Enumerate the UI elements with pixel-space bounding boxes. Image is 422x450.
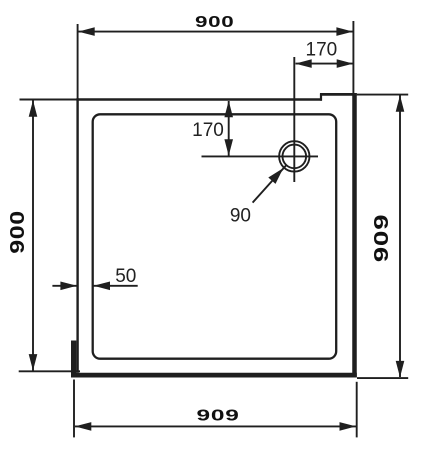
svg-text:909: 909 <box>197 406 240 424</box>
arrow 50 right (points left) <box>94 282 111 291</box>
extension line bottom-left (vertical) <box>73 380 75 438</box>
tray outer top edge (thin) <box>76 98 322 100</box>
tray top-right notch step <box>320 93 322 100</box>
leader line 90 <box>253 165 287 202</box>
arrow 900 top right <box>336 27 353 36</box>
svg-text:170: 170 <box>192 120 224 141</box>
arrow 170 top left <box>295 59 312 68</box>
arrow 909 right top <box>396 95 405 112</box>
svg-text:900: 900 <box>195 13 234 31</box>
arrow 900 top left <box>78 27 95 36</box>
svg-text:900: 900 <box>7 210 29 254</box>
drain outer circle <box>279 141 309 171</box>
extension line left-bottom (horizontal) <box>19 370 80 372</box>
arrow leader 90 <box>268 168 283 184</box>
extension line left-top (horizontal) <box>20 99 77 101</box>
arrow 909 bottom right <box>340 422 357 431</box>
arrow 909 bottom left <box>75 422 92 431</box>
drain horizontal centerline <box>202 155 319 157</box>
tray outer left edge (thin) <box>76 98 78 373</box>
dim line 170 vertical inner <box>228 101 230 156</box>
tray inner floor rounded square <box>93 114 337 358</box>
drain inner circle <box>283 145 307 169</box>
extension line bottom-right (vertical) <box>356 382 358 438</box>
arrow 900 left bottom <box>29 354 38 371</box>
dim line 170 top <box>296 63 354 65</box>
extension line right-top (horizontal) <box>357 94 408 96</box>
dim line 50 left shaft <box>52 285 77 287</box>
arrow 909 right bottom <box>396 361 405 378</box>
dim line 909 bottom <box>75 425 356 427</box>
arrow 900 left top <box>29 100 38 117</box>
tray top-right notch edge (thick) <box>320 93 357 96</box>
extension line top-left <box>77 24 79 100</box>
arrow 170 vertical up <box>224 101 233 118</box>
tray bottom-left step bar <box>71 341 76 378</box>
dim line 909 right <box>399 96 401 378</box>
drain vertical centerline / extension <box>293 57 295 182</box>
dim line 900 left <box>32 101 34 371</box>
extension line right-bottom (horizontal) <box>357 377 408 379</box>
dim line 900 top <box>78 31 353 33</box>
arrow 50 left (points right) <box>60 282 77 291</box>
tray bottom edge (thick panel) <box>71 373 357 378</box>
svg-text:909: 909 <box>371 214 393 262</box>
arrow 170 vertical down <box>224 139 233 156</box>
svg-text:50: 50 <box>115 266 136 287</box>
arrow 170 top right <box>337 59 354 68</box>
extension line top-right <box>352 21 354 94</box>
svg-text:170: 170 <box>306 39 338 60</box>
svg-text:90: 90 <box>230 205 251 226</box>
tray right edge (thick panel) <box>352 93 357 378</box>
dim line 50 right shaft <box>94 285 138 287</box>
